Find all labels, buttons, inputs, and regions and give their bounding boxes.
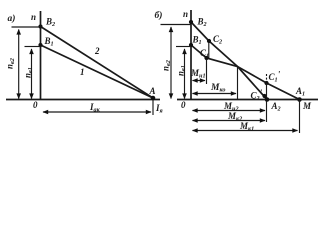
label a) — [8, 13, 16, 24]
point C2 — [207, 39, 211, 43]
svg-text:В2: В2 — [197, 17, 207, 29]
extension line from B2 (right) — [161, 24, 192, 26]
label A — [149, 86, 156, 96]
dimension n_v1 (left) — [31, 49, 33, 99]
label b) — [155, 10, 163, 21]
dimension n_v1 (right) — [184, 49, 186, 99]
characteristic 2 — [41, 27, 154, 99]
svg-text:0: 0 — [181, 100, 186, 110]
svg-text:а): а) — [8, 13, 16, 24]
point A1 / M — [297, 97, 302, 102]
svg-text:Мн1: Мн1 — [190, 68, 206, 80]
dimension Mn2 — [193, 110, 266, 112]
point B1 (right) — [189, 43, 193, 47]
label B2 (left) — [45, 17, 55, 29]
vertical link C2 to C1 line — [208, 42, 210, 58]
n axis (left diagram) — [40, 11, 42, 100]
extension line through C1prime and A2 — [266, 74, 268, 82]
svg-text:С1: С1 — [200, 48, 209, 60]
label n_v2 (right, rotated) — [161, 60, 173, 71]
label C1prime — [269, 70, 281, 84]
label A1 — [295, 86, 305, 98]
svg-text:А2: А2 — [271, 101, 281, 113]
I baseline (left diagram) — [6, 99, 160, 101]
label 1 — [80, 67, 85, 77]
label B2 (right) — [197, 17, 207, 29]
label I_ak — [89, 102, 101, 114]
characteristic with weakened flux B2-C2-X-A2 — [191, 22, 267, 100]
label n_v1 (right, rotated) — [176, 65, 188, 76]
svg-text:А: А — [149, 86, 156, 96]
point C1prime — [264, 81, 268, 85]
extension from crossing X down to baseline — [237, 68, 239, 100]
axis label M — [302, 101, 312, 111]
extension below M down to Mk1 dimension — [299, 100, 301, 133]
characteristic with full flux B1-C1-X-C1p-M — [191, 45, 300, 100]
svg-text:В1: В1 — [192, 35, 202, 47]
label n_v2 (left, rotated) — [5, 58, 17, 69]
svg-text:Iак: Iак — [89, 102, 101, 114]
svg-text:Мк1: Мк1 — [239, 121, 254, 133]
origin 0 label (right) — [181, 100, 186, 110]
characteristic 1 — [41, 45, 154, 98]
label Mn1 — [190, 68, 206, 80]
label B1 (right) — [192, 35, 202, 47]
origin 0 label (left) — [33, 100, 38, 110]
label Mk2 — [227, 111, 242, 123]
n axis (right diagram) — [190, 10, 192, 100]
n axis label (right) — [183, 9, 188, 19]
svg-text:nв1: nв1 — [176, 65, 188, 76]
label B1 (left) — [44, 36, 54, 48]
dimension I_ak — [43, 111, 151, 113]
svg-text:nв1: nв1 — [23, 67, 35, 78]
point B2 (right) — [189, 20, 193, 24]
svg-text:n: n — [31, 12, 36, 22]
point B2 (left) — [38, 24, 42, 28]
svg-text:С2: С2 — [213, 34, 222, 46]
dimension n_v2 (right) — [170, 27, 172, 99]
point A2 — [265, 97, 270, 102]
dimension Mk2 — [193, 120, 266, 122]
label Mk1 — [239, 121, 254, 133]
dimension n_v2 (left) — [18, 30, 20, 99]
dimension Mn1 — [193, 80, 206, 82]
dimension Mko — [193, 93, 237, 95]
M baseline (right diagram) — [177, 99, 318, 101]
svg-text:б): б) — [155, 10, 163, 21]
dimension Mk1 — [193, 130, 298, 132]
label C2prime — [251, 88, 263, 102]
svg-text:0: 0 — [33, 100, 38, 110]
label n_v1 (left, rotated) — [23, 67, 35, 78]
svg-text:1: 1 — [80, 67, 85, 77]
point C1 — [204, 56, 208, 60]
label C2 — [213, 34, 222, 46]
label A2 — [271, 101, 281, 113]
svg-text:М: М — [302, 101, 312, 111]
label Mko — [210, 83, 225, 94]
point B1 (left) — [38, 43, 42, 47]
label 2 — [94, 46, 100, 56]
extension from C1 down to Mn1 dimension — [206, 59, 208, 84]
svg-text:n: n — [183, 9, 188, 19]
svg-text:Iя: Iя — [155, 103, 163, 115]
extension line below A — [152, 100, 154, 115]
svg-text:2: 2 — [94, 46, 100, 56]
svg-text:Мко: Мко — [210, 83, 225, 94]
label Mn2 — [223, 101, 239, 113]
svg-text:В1: В1 — [44, 36, 54, 48]
extension line from B2 (left) — [12, 26, 41, 28]
svg-text:nв2: nв2 — [161, 60, 173, 71]
axis label I_ya — [155, 103, 163, 115]
svg-text:nв2: nв2 — [5, 58, 17, 69]
svg-text:А1: А1 — [295, 86, 305, 98]
point A — [151, 96, 156, 101]
svg-text:С1': С1' — [269, 70, 281, 84]
n axis label — [31, 12, 36, 22]
point C2prime — [262, 94, 266, 98]
svg-text:В2: В2 — [45, 17, 55, 29]
extension line from B1 (right) — [176, 46, 191, 48]
extension line from B1 (left) — [25, 46, 41, 48]
label C1 — [200, 48, 209, 60]
